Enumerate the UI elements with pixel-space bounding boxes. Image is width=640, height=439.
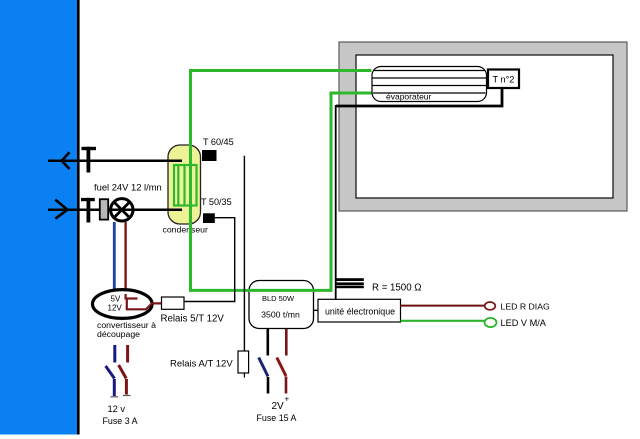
svg-text:condenseur: condenseur: [163, 225, 209, 235]
resistor R1 (1500 ohm): [336, 278, 364, 288]
refrigerant line condenser-top to evaporator (green): [191, 71, 372, 208]
bulkhead T fitting (top): [82, 147, 97, 173]
sensor T 50/35: [201, 197, 232, 223]
svg-text:Fuse 3 A: Fuse 3 A: [103, 416, 138, 426]
sensor T n°2: [488, 70, 519, 89]
relay A/T stub below: [243, 373, 245, 378]
supply wire 12V upper (navy): [113, 345, 116, 363]
arrowhead right: [55, 200, 67, 219]
motor supply wire upper (dark red): [285, 329, 288, 356]
svg-text:unité électronique: unité électronique: [325, 307, 395, 317]
sensor T 60/45: [202, 137, 234, 161]
svg-text:Fuse 15 A: Fuse 15 A: [257, 413, 297, 423]
wall border line: [77, 0, 80, 435]
switch blade 12V (navy): [106, 366, 115, 379]
control unit box: [318, 299, 401, 322]
svg-text:Relais A/T 12V: Relais A/T 12V: [170, 359, 233, 370]
condenser coil (green): [174, 165, 197, 206]
svg-text:LED R DIAG: LED R DIAG: [501, 302, 550, 312]
fuel return line: [48, 159, 182, 162]
refrigerant line evaporator to condenser-bottom (green): [191, 93, 372, 290]
condenser (yellow body): [168, 145, 201, 224]
svg-text:3500 t/mn: 3500 t/mn: [261, 310, 300, 320]
svg-text:fuel 24V 12 l/mn: fuel 24V 12 l/mn: [94, 182, 162, 193]
terminal tick left: [111, 396, 119, 398]
terminal tick right: [123, 395, 131, 397]
svg-text:T n°2: T n°2: [493, 75, 515, 85]
wire T 60/45 to relay A/T: [243, 156, 245, 351]
converter ellipse: [93, 290, 153, 319]
motor supply wire lower (dark red): [285, 377, 288, 394]
supply wire 12V return lower (dark red): [125, 379, 128, 395]
LED R DIAG: [485, 302, 496, 310]
switch blade 12V return (dark red): [119, 365, 127, 379]
wire T n°2 to control unit: [335, 105, 337, 299]
BLDC motor M1: [249, 281, 314, 329]
fuel supply line: [48, 208, 182, 211]
wire pump to converter (dark red): [124, 222, 126, 297]
converter internal wiring (dark red): [125, 294, 162, 309]
bulkhead T fitting (bottom): [81, 198, 95, 223]
svg-text:12V: 12V: [108, 304, 123, 313]
svg-text:BLD 50W: BLD 50W: [262, 294, 295, 303]
svg-text:découpage: découpage: [97, 329, 140, 339]
relay A/T 12V (box): [238, 351, 249, 373]
svg-text:5V: 5V: [111, 295, 121, 304]
LED R DIAG wire (dark red): [401, 305, 485, 307]
svg-text:Relais 5/T 12V: Relais 5/T 12V: [161, 314, 225, 325]
arrowhead left: [62, 152, 70, 169]
cold room enclosure (gray wall): [339, 42, 627, 211]
blue wall panel: [0, 0, 77, 435]
wire T 50/35 to relay 5/T: [185, 218, 235, 302]
fuel filter: [100, 199, 108, 219]
supply wire 12V return upper (dark red): [126, 345, 129, 363]
svg-text:2V: 2V: [272, 401, 285, 412]
evaporator: [372, 67, 487, 102]
supply wire 12V lower (navy): [113, 379, 116, 396]
svg-text:évaporateur: évaporateur: [386, 92, 432, 102]
motor phase wire upper (black): [266, 329, 269, 356]
svg-text:12 v: 12 v: [108, 404, 126, 414]
svg-text:LED V M/A: LED V M/A: [501, 318, 547, 328]
switch blade (dark red): [277, 358, 286, 377]
wire motor to control unit: [314, 309, 319, 311]
wire sensor T n°2 drop (thick): [336, 87, 502, 106]
fuel pump (circle with X): [111, 199, 133, 221]
svg-text:T 50/35: T 50/35: [201, 197, 232, 207]
LED V M/A wire (green): [401, 320, 485, 322]
svg-text:T 60/45: T 60/45: [203, 137, 234, 147]
svg-text:+: +: [285, 395, 290, 404]
svg-text:R = 1500 Ω: R = 1500 Ω: [372, 283, 422, 294]
motor phase wire lower (black): [267, 377, 270, 394]
switch blade (navy): [259, 358, 268, 377]
relay 5/T 12V (box): [162, 297, 185, 309]
LED V M/A: [485, 318, 497, 327]
wire pump to converter (blue): [113, 222, 116, 290]
